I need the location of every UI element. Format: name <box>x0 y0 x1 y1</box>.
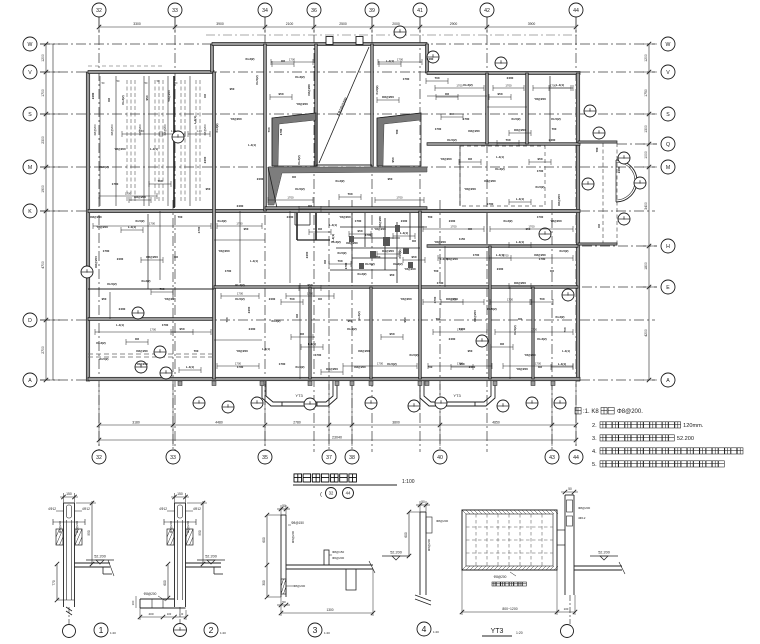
svg-text:700: 700 <box>552 127 557 131</box>
detail 4 top dim 50 <box>416 504 430 506</box>
svg-text:4700: 4700 <box>41 261 45 269</box>
svg-text:700: 700 <box>505 138 510 142</box>
svg-text:KL5(2): KL5(2) <box>136 219 145 223</box>
stair void left edge <box>315 44 318 166</box>
svg-text:1700: 1700 <box>473 253 480 257</box>
svg-text:2400: 2400 <box>117 257 124 261</box>
section marker: marker mid right <box>539 228 551 240</box>
svg-text:KL5(2): KL5(2) <box>107 282 116 286</box>
detail 1 number circle <box>94 623 108 637</box>
svg-text:1900: 1900 <box>41 185 45 193</box>
dashed floor opening right block <box>460 146 545 206</box>
svg-text:4: 4 <box>422 624 427 634</box>
wall top of middle block (axis W) <box>212 43 427 46</box>
svg-text:Y8@200: Y8@200 <box>404 267 416 271</box>
svg-text::1. K8: :1. K8 <box>583 409 599 415</box>
section marker bottom row <box>554 397 566 409</box>
axis bubble 32 bottom <box>92 450 106 464</box>
wall at axis 34 <box>264 44 267 211</box>
detail 2 mid dimension 600 <box>167 564 169 598</box>
svg-text:Y8@200: Y8@200 <box>167 90 171 102</box>
precast slab span lines, left wing upper room <box>100 76 190 206</box>
svg-text:3300: 3300 <box>133 22 141 26</box>
svg-text:Y8@200: Y8@200 <box>534 97 546 101</box>
svg-text:700: 700 <box>194 349 199 353</box>
svg-text:K8: K8 <box>597 224 601 228</box>
svg-text:43: 43 <box>549 455 555 461</box>
wall left wing at axis D <box>88 318 214 321</box>
svg-text:K8@200: K8@200 <box>354 365 366 369</box>
svg-text:K8: K8 <box>281 59 285 63</box>
svg-text:Φ8@200: Φ8@200 <box>578 506 590 510</box>
axis bubble 44 top <box>569 3 583 17</box>
svg-text:2400: 2400 <box>247 306 251 313</box>
svg-text:950: 950 <box>537 157 542 161</box>
section marker: marker left lower <box>154 346 166 358</box>
svg-text:KL3(2): KL3(2) <box>142 279 151 283</box>
svg-text:KL5(2): KL5(2) <box>375 85 379 94</box>
wall lower middle divider 1 <box>309 287 311 379</box>
svg-text:M: M <box>28 165 32 171</box>
thin beam line right block <box>549 76 551 142</box>
svg-text:52.200: 52.200 <box>390 551 402 555</box>
svg-text:42: 42 <box>484 8 490 14</box>
axis bubble S right <box>661 107 675 121</box>
svg-text:700: 700 <box>428 365 433 369</box>
detail 1 parapet column <box>64 503 75 607</box>
svg-text:3.: 3. <box>592 436 597 442</box>
svg-text:K8@200: K8@200 <box>134 195 146 199</box>
axis bubble H right <box>661 239 675 253</box>
detail 1 axis circle (blank) <box>63 625 76 638</box>
axis bubble D left <box>23 313 37 327</box>
svg-text:1700: 1700 <box>397 58 404 62</box>
horizontal axis line M <box>40 166 655 168</box>
axis bubble 40 bottom <box>433 450 447 464</box>
YT3 top dim 50 <box>561 491 578 493</box>
svg-text:1700: 1700 <box>463 117 470 121</box>
svg-text:KL3(2): KL3(2) <box>347 327 356 331</box>
svg-text:700: 700 <box>347 192 352 196</box>
YT3 connection lines <box>557 529 565 531</box>
svg-text:1700: 1700 <box>162 323 169 327</box>
detail 2 bottom dimensions <box>140 616 186 618</box>
axis line Q right stub <box>617 143 657 145</box>
svg-text:1700: 1700 <box>344 262 348 269</box>
svg-text:2400: 2400 <box>305 251 309 258</box>
axis bubble S left <box>23 107 37 121</box>
svg-text:KL3(2): KL3(2) <box>463 83 472 87</box>
svg-text:1700: 1700 <box>435 127 442 131</box>
svg-text:2400: 2400 <box>119 307 126 311</box>
svg-text:1700: 1700 <box>528 225 535 229</box>
svg-text:KL3(2): KL3(2) <box>393 262 402 266</box>
svg-text:44: 44 <box>573 8 579 14</box>
arc chord line <box>615 160 617 202</box>
chimney stub above top wall 1 <box>326 37 333 45</box>
svg-text:950: 950 <box>390 273 395 277</box>
detail 2 right dimension 950 <box>202 501 204 564</box>
svg-text:K8@200: K8@200 <box>382 95 394 99</box>
svg-text:950: 950 <box>307 283 312 287</box>
svg-text:YT3: YT3 <box>453 393 461 398</box>
svg-text:1300: 1300 <box>644 125 648 133</box>
svg-text:Y8@200: Y8@200 <box>550 219 562 223</box>
detail 1 left dimension 770 <box>56 564 58 600</box>
YT3 internal dashed grid <box>466 514 553 566</box>
svg-text:950: 950 <box>230 87 235 91</box>
axis bubble V right <box>661 65 675 79</box>
svg-text:KL5(2): KL5(2) <box>100 357 109 361</box>
svg-text:L-1(1): L-1(1) <box>329 223 337 227</box>
svg-text:40: 40 <box>437 455 443 461</box>
svg-text:K8@200: K8@200 <box>94 256 98 268</box>
svg-text:950: 950 <box>497 92 502 96</box>
svg-text:4Φ12: 4Φ12 <box>159 507 167 511</box>
svg-text:38: 38 <box>349 455 355 461</box>
svg-text:1700: 1700 <box>315 353 322 357</box>
svg-text:1700: 1700 <box>125 192 132 196</box>
room outline left of void <box>272 113 316 166</box>
svg-text:100: 100 <box>131 600 135 605</box>
svg-text:34: 34 <box>262 8 268 14</box>
beam line left wing lower <box>109 292 111 319</box>
svg-text:E: E <box>666 285 670 291</box>
svg-text:1.40: 1.40 <box>196 129 202 133</box>
svg-text:K8@200: K8@200 <box>382 249 394 253</box>
axis bubble 34 top <box>258 3 272 17</box>
svg-text:2400: 2400 <box>449 219 456 223</box>
wall right block room divider 2 <box>526 73 529 144</box>
svg-text:L-1(1): L-1(1) <box>128 225 136 229</box>
svg-text:4Φ12: 4Φ12 <box>193 507 201 511</box>
left dimension line <box>45 44 47 380</box>
svg-text:Y8@200: Y8@200 <box>464 187 476 191</box>
svg-text:52.200: 52.200 <box>677 436 694 442</box>
svg-text:KL5(2): KL5(2) <box>513 325 517 334</box>
axis bubble W right <box>661 37 675 51</box>
detail 3 top dim 50 <box>277 508 290 510</box>
svg-text:1700: 1700 <box>450 298 457 302</box>
YT3 note: precast slab note <box>492 582 526 586</box>
axis bubble M right <box>661 160 675 174</box>
svg-text:L-1(1): L-1(1) <box>308 342 316 346</box>
svg-text:700: 700 <box>178 215 183 219</box>
section marker: marker top 0 <box>394 26 406 38</box>
svg-text:4850: 4850 <box>492 421 500 425</box>
axis bubble 39 top <box>365 3 379 17</box>
vertical axis line 41 <box>419 17 421 452</box>
svg-text:K8: K8 <box>538 365 542 369</box>
svg-text:950: 950 <box>348 319 353 323</box>
horizontal axis line D <box>40 319 655 321</box>
horizontal axis line S <box>40 113 655 115</box>
svg-text:1:20: 1:20 <box>433 630 439 634</box>
section marker: marker top 2 <box>495 57 507 69</box>
detail 4 left dimension 600 <box>408 512 410 556</box>
detail 1 right dimension 950 <box>91 501 93 564</box>
svg-text:1700: 1700 <box>150 328 157 332</box>
axis bubble 35 bottom <box>258 450 272 464</box>
horizontal axis line K <box>40 210 655 212</box>
svg-text:1700: 1700 <box>507 298 514 302</box>
wall lower right divider 1 <box>489 246 491 379</box>
svg-text:3800: 3800 <box>392 421 400 425</box>
svg-text:KL5(2): KL5(2) <box>410 353 419 357</box>
vertical axis line 43 (lower) <box>551 200 553 452</box>
internal dimension chains <box>423 228 484 230</box>
svg-text:52.200: 52.200 <box>205 555 217 559</box>
svg-text:KL5(2): KL5(2) <box>487 307 496 311</box>
svg-text:V: V <box>28 70 32 76</box>
svg-text:2400: 2400 <box>91 92 95 99</box>
svg-text:1800: 1800 <box>644 262 648 270</box>
section marker bottom row <box>365 397 377 409</box>
svg-text:950: 950 <box>87 530 91 536</box>
svg-text:Φ6@200: Φ6@200 <box>332 556 344 560</box>
section marker: marker bay e <box>618 213 630 225</box>
YT3 tall wall element on right <box>565 495 574 595</box>
svg-text:2400: 2400 <box>401 219 408 223</box>
bay window top wall <box>578 141 617 143</box>
svg-text:K8: K8 <box>318 297 322 301</box>
balcony bay YT3 left <box>262 381 337 406</box>
svg-text:150: 150 <box>177 492 183 496</box>
wall bottom outer (axis A) <box>88 377 580 380</box>
svg-text:950: 950 <box>179 327 184 331</box>
svg-text:Y8@200: Y8@200 <box>400 297 412 301</box>
svg-text:32: 32 <box>96 455 102 461</box>
svg-text:1700: 1700 <box>396 196 403 200</box>
svg-text:KL3(2): KL3(2) <box>357 311 361 320</box>
svg-text:Y8@200: Y8@200 <box>446 257 458 261</box>
svg-text:K8@200: K8@200 <box>534 253 546 257</box>
bottom dimension total line <box>99 439 576 441</box>
top dimension line <box>99 26 576 28</box>
svg-text:700: 700 <box>595 147 599 152</box>
svg-text:2400: 2400 <box>617 166 621 173</box>
YT3 frame hatch band <box>462 510 558 570</box>
svg-text:KL3(2): KL3(2) <box>556 315 565 319</box>
svg-text:KL5(2): KL5(2) <box>551 117 560 121</box>
svg-text:KL3(2): KL3(2) <box>121 95 125 104</box>
svg-text:1700: 1700 <box>535 362 542 366</box>
detail 4 number circle <box>417 622 431 636</box>
svg-text:52.200: 52.200 <box>94 555 106 559</box>
svg-text:44: 44 <box>346 491 351 496</box>
dashed eave line above top wall <box>206 34 578 36</box>
svg-text:KL3(2): KL3(2) <box>495 167 504 171</box>
svg-text:K8: K8 <box>107 98 111 102</box>
detail 1 column centerline and base <box>66 607 72 611</box>
svg-text:K8@200: K8@200 <box>136 349 148 353</box>
YT3 centerline <box>569 595 571 624</box>
svg-text:Φ8@200: Φ8@200 <box>293 584 305 588</box>
vertical axis line 36 <box>313 17 315 452</box>
svg-text:L-1(1): L-1(1) <box>556 83 564 87</box>
vertical axis line 44 <box>575 17 577 452</box>
svg-text:K8: K8 <box>500 342 504 346</box>
svg-text:50: 50 <box>282 600 286 604</box>
svg-text:Φ8@200: Φ8@200 <box>494 575 507 579</box>
wall at axis E <box>214 286 578 289</box>
left wing interior wall <box>173 76 175 208</box>
stair void bottom edge <box>316 164 372 166</box>
axis bubble 32 top <box>92 3 106 17</box>
detail 2 parapet column <box>175 503 186 607</box>
svg-text:Y8@200: Y8@200 <box>524 353 536 357</box>
svg-text:1700: 1700 <box>307 292 314 296</box>
svg-text:L-1(1): L-1(1) <box>116 323 124 327</box>
wall top of left wing (axis V) <box>88 71 214 74</box>
corridor top grey band <box>268 167 427 205</box>
svg-text:D: D <box>28 318 32 324</box>
svg-text:Y8@200: Y8@200 <box>164 297 176 301</box>
detail 2 axis circle with tick <box>174 624 187 637</box>
beam line H strip <box>486 213 488 244</box>
axis bubble 38 bottom <box>345 450 359 464</box>
svg-text:L-1(1): L-1(1) <box>562 349 570 353</box>
svg-text:950: 950 <box>102 297 107 301</box>
svg-text:K8@200: K8@200 <box>468 129 480 133</box>
svg-text:700: 700 <box>428 215 433 219</box>
svg-text:1700: 1700 <box>550 84 557 88</box>
svg-text:1:20: 1:20 <box>324 631 330 635</box>
svg-text:1700: 1700 <box>433 296 437 303</box>
svg-text:950: 950 <box>357 229 362 233</box>
svg-text:S: S <box>666 112 670 118</box>
bay window bottom wall <box>578 243 617 245</box>
section marker bottom row <box>526 397 538 409</box>
beam line mid lower <box>239 211 241 283</box>
svg-text:950: 950 <box>244 227 249 231</box>
vertical axis line 39 <box>371 17 373 452</box>
horizontal axis line V <box>40 71 655 73</box>
YT3 balcony plan detail: outer frame <box>462 510 557 570</box>
detail 4 bottom break <box>415 595 431 601</box>
svg-text:(: ( <box>320 492 322 498</box>
svg-text:S: S <box>28 112 32 118</box>
svg-text:950: 950 <box>145 95 149 100</box>
axis bubble M left <box>23 160 37 174</box>
svg-text:Y8@200: Y8@200 <box>114 147 126 151</box>
svg-text:4Φ12: 4Φ12 <box>48 507 56 511</box>
detail 2 small left dim <box>135 596 137 608</box>
detail 3 step notch under slab <box>346 569 356 590</box>
svg-text:700: 700 <box>436 317 441 321</box>
vertical axis line 40 (lower) <box>439 200 441 452</box>
svg-text:950: 950 <box>278 92 283 96</box>
vertical axis line 34 <box>264 17 266 452</box>
svg-text:44: 44 <box>573 455 579 461</box>
svg-text:37: 37 <box>326 455 332 461</box>
svg-text:1700: 1700 <box>279 128 283 135</box>
svg-text:1150: 1150 <box>459 237 466 241</box>
svg-text:1700: 1700 <box>237 365 244 369</box>
svg-text:Φ8@200: Φ8@200 <box>93 124 97 136</box>
svg-text:1000: 1000 <box>644 151 648 159</box>
svg-text:5.: 5. <box>592 462 597 468</box>
svg-text:Y8@200: Y8@200 <box>440 157 452 161</box>
svg-text:Φ8@200: Φ8@200 <box>75 521 79 533</box>
svg-text:K8@200: K8@200 <box>90 215 102 219</box>
axis bubble W left <box>23 37 37 51</box>
svg-text:1700: 1700 <box>403 77 410 81</box>
vertical axis line 42 <box>486 17 488 452</box>
svg-text:KL5(2): KL5(2) <box>536 185 545 189</box>
axis bubble 33 top <box>168 3 182 17</box>
grey wedge right room <box>377 113 421 166</box>
svg-text:K8@200: K8@200 <box>473 310 477 322</box>
svg-text:KL3(2): KL3(2) <box>504 219 513 223</box>
svg-text:950: 950 <box>468 349 473 353</box>
stair core walls and fittings <box>295 213 427 283</box>
svg-text:Y8@200: Y8@200 <box>339 215 351 219</box>
svg-text:1300: 1300 <box>326 608 333 612</box>
svg-text:950: 950 <box>411 255 416 259</box>
axis bubble Q right <box>661 137 675 151</box>
svg-text:K8@200: K8@200 <box>346 241 358 245</box>
svg-text:2400: 2400 <box>249 327 256 331</box>
svg-text:2000: 2000 <box>392 22 400 26</box>
svg-text:1700: 1700 <box>279 362 286 366</box>
svg-text:KL3(2): KL3(2) <box>218 219 227 223</box>
dashed roof edge top-left <box>88 65 163 67</box>
svg-text:3: 3 <box>313 625 318 635</box>
svg-text:K8: K8 <box>135 337 139 341</box>
detail 4 inner boxes and labels <box>426 517 432 533</box>
svg-text:2100: 2100 <box>286 22 294 26</box>
svg-text:2700: 2700 <box>41 346 45 354</box>
svg-text:L-1(1): L-1(1) <box>193 116 197 124</box>
svg-text:Y8@200: Y8@200 <box>434 240 446 244</box>
svg-text:KL3(2): KL3(2) <box>336 179 345 183</box>
svg-text:Φ8@150: Φ8@150 <box>332 550 344 554</box>
svg-text:3900: 3900 <box>216 22 224 26</box>
wall lower middle divider 2 <box>370 287 372 379</box>
svg-text:KL3(2): KL3(2) <box>235 283 244 287</box>
svg-text:W: W <box>666 42 671 48</box>
axis bubble 36 top <box>307 3 321 17</box>
svg-text:700: 700 <box>395 129 399 134</box>
svg-text:K8: K8 <box>450 112 454 116</box>
svg-text:950: 950 <box>403 317 407 322</box>
svg-text:2400: 2400 <box>237 204 244 208</box>
svg-text:K8: K8 <box>412 239 416 243</box>
section marker: marker left room <box>132 307 144 319</box>
svg-text:KL5(2): KL5(2) <box>295 187 304 191</box>
detail 3 bottom-left hatched block <box>281 579 286 594</box>
svg-text:Y8@200: Y8@200 <box>218 249 230 253</box>
svg-text:KL5(2): KL5(2) <box>398 249 402 258</box>
svg-text:KL3(2): KL3(2) <box>272 319 281 323</box>
section marker bottom row <box>435 397 447 409</box>
axis line H right stub <box>582 245 657 247</box>
svg-text:1700: 1700 <box>365 233 372 237</box>
svg-text:KL3(2): KL3(2) <box>246 57 255 61</box>
svg-text:2780: 2780 <box>293 421 301 425</box>
svg-text:L-1(1): L-1(1) <box>516 197 524 201</box>
svg-text:35: 35 <box>262 455 268 461</box>
svg-text:1200: 1200 <box>644 54 648 62</box>
svg-text:K8: K8 <box>295 314 299 318</box>
section marker bottom row <box>193 397 205 409</box>
svg-text:A: A <box>28 378 32 384</box>
svg-text:700: 700 <box>225 317 229 322</box>
beam line left wing lower room <box>147 214 149 289</box>
svg-text:Y8@200: Y8@200 <box>230 117 242 121</box>
svg-text:KL3(2): KL3(2) <box>297 155 301 164</box>
